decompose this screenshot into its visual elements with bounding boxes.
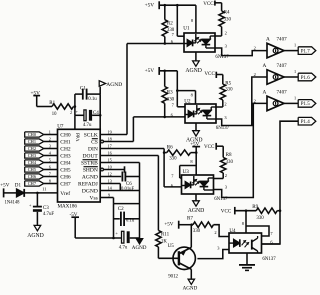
wire U3 pin8 [195, 153, 197, 175]
resistor R9 330 [235, 210, 256, 212]
svg-text:+5V: +5V [145, 2, 155, 8]
svg-text:17: 17 [108, 143, 112, 148]
wire CH7 pin 8 [44, 183, 58, 185]
wire CS net [101, 140, 104, 143]
svg-text:MAX186: MAX186 [58, 204, 78, 210]
svg-text:4.7u: 4.7u [83, 123, 92, 128]
svg-text:1: 1 [294, 43, 296, 48]
wire U2 pin7 [176, 71, 178, 107]
svg-text:330: 330 [193, 229, 201, 234]
svg-text:P1.5: P1.5 [301, 102, 310, 107]
svg-text:2: 2 [254, 46, 256, 51]
wire U4 pin3 to Q collector [197, 250, 229, 259]
svg-text:6N137: 6N137 [216, 126, 230, 131]
svg-text:330: 330 [226, 160, 234, 165]
svg-text:2: 2 [225, 31, 227, 36]
svg-text:11: 11 [42, 186, 46, 191]
wire caps to Vdd pin 20 [74, 115, 76, 129]
svg-text:CS: CS [91, 139, 98, 145]
wire -5V branch vertical [113, 204, 115, 238]
svg-text:+5V: +5V [145, 68, 155, 74]
capacitor C7 4.7u polarized [122, 231, 124, 243]
node after R1 [74, 105, 77, 108]
svg-text:7407: 7407 [277, 63, 288, 69]
port CH2 [25, 146, 44, 151]
svg-text:VCC: VCC [203, 1, 214, 7]
ground AGND (below U2) [195, 123, 197, 131]
svg-text:330: 330 [256, 216, 264, 221]
svg-text:13: 13 [108, 178, 112, 183]
svg-text:DGND: DGND [82, 188, 98, 194]
resistor R4 330 [219, 11, 224, 27]
wire U3 pin3 to buffer [214, 103, 268, 197]
wire U3 pin7 [179, 166, 181, 179]
resistor R7 330 [179, 224, 193, 226]
svg-text:7407: 7407 [277, 89, 288, 95]
svg-text:AGND: AGND [82, 174, 98, 180]
svg-text:330: 330 [224, 18, 232, 23]
port CH1 [25, 139, 44, 144]
svg-text:0.1u: 0.1u [126, 218, 135, 223]
svg-text:VCC: VCC [204, 144, 215, 150]
svg-text:+5V: +5V [164, 222, 173, 228]
port CH4 [25, 160, 44, 165]
svg-text:REFADJ: REFADJ [78, 181, 99, 187]
svg-text:CH7: CH7 [28, 181, 37, 186]
port P1.4 [298, 117, 316, 125]
wire buffer output P1.7 [284, 50, 298, 52]
wire U3 pin2 to R8 [214, 178, 224, 180]
svg-text:R1: R1 [49, 100, 55, 106]
wire SSTRB net [100, 162, 139, 164]
wire buffer output P1.6 [284, 76, 298, 78]
svg-text:Vss: Vss [90, 195, 98, 201]
svg-text:10: 10 [52, 112, 57, 117]
svg-text:SSTRB: SSTRB [81, 160, 98, 166]
wire U1 pin3 to buffer [215, 48, 267, 56]
wire R1 node vertical [74, 94, 76, 115]
svg-text:R3: R3 [167, 89, 173, 95]
buffer 7407 (P1.6 driver) [267, 70, 284, 85]
svg-text:R7: R7 [187, 215, 193, 221]
wire DIN net [100, 148, 164, 150]
capacitor C1 [75, 93, 83, 95]
svg-text:2: 2 [225, 173, 227, 178]
wire REFADJ stub [100, 183, 120, 185]
wire SHDN stub [101, 168, 104, 171]
svg-text:R2: R2 [167, 20, 173, 26]
capacitor C4 [75, 114, 84, 116]
svg-text:6N137: 6N137 [262, 257, 276, 262]
U4 emission arrows [242, 241, 246, 246]
wire U4 pin6 [262, 243, 281, 245]
svg-text:2: 2 [70, 110, 72, 115]
resistor R5 330 [220, 84, 225, 100]
svg-text:CH3: CH3 [60, 153, 71, 159]
svg-text:330: 330 [225, 87, 233, 92]
port CH3 [25, 153, 44, 158]
svg-text:2: 2 [49, 137, 51, 142]
svg-text:1N4148: 1N4148 [5, 200, 21, 205]
svg-text:2: 2 [254, 72, 256, 77]
ground AGND (below U1) [195, 52, 197, 61]
wire U4 pin7 [246, 226, 269, 236]
svg-text:4.7uF: 4.7uF [43, 212, 55, 217]
wire U1 pin7 [176, 5, 178, 36]
wire CH0 pin 1 [44, 134, 58, 136]
overline SHDN [84, 166, 98, 168]
svg-text:DIN: DIN [88, 146, 98, 152]
capacitor C3 [36, 193, 38, 207]
svg-text:7407: 7407 [277, 37, 288, 43]
svg-text:CH5: CH5 [60, 167, 71, 173]
svg-text:VCC: VCC [221, 209, 232, 215]
wire CH3 pin 4 [44, 155, 58, 157]
svg-text:R6: R6 [167, 145, 173, 151]
wire D1 to Vref pin 11 [24, 192, 57, 194]
wire SCLK net [100, 134, 127, 136]
svg-text:18: 18 [108, 136, 112, 141]
svg-text:AGND: AGND [27, 233, 44, 239]
svg-text:R4: R4 [224, 10, 230, 16]
svg-text:CH5: CH5 [28, 167, 36, 172]
svg-text:C2: C2 [118, 206, 124, 212]
ground AGND (below Q) [188, 279, 194, 284]
svg-text:R5: R5 [225, 81, 231, 87]
wire Vss net [100, 197, 113, 199]
overline SSTRB [83, 159, 98, 161]
port CH5 [25, 167, 44, 172]
svg-text:CH4: CH4 [28, 160, 37, 165]
diode D1 1N4148 [17, 189, 25, 197]
svg-text:U1: U1 [183, 26, 190, 32]
wire U2 pin3 to buffer [216, 77, 267, 126]
wire U4 pin8 [245, 209, 248, 212]
svg-text:AGND: AGND [183, 286, 198, 290]
buffer 7407 (P1.7 driver) [267, 43, 284, 58]
svg-text:Vdd: Vdd [77, 133, 82, 142]
svg-text:CH2: CH2 [60, 146, 71, 152]
svg-text:3: 3 [49, 144, 51, 149]
svg-text:4.7u: 4.7u [119, 246, 128, 251]
svg-text:5: 5 [49, 158, 51, 163]
svg-text:2: 2 [254, 98, 256, 103]
ground AGND (below C3) [34, 225, 41, 230]
port CH0 [25, 132, 44, 137]
svg-text:A: A [263, 63, 267, 69]
svg-text:7: 7 [49, 172, 51, 177]
svg-text:CH4: CH4 [60, 160, 71, 166]
svg-text:AGND: AGND [185, 68, 202, 74]
ground (below U4) [246, 253, 248, 265]
svg-text:6: 6 [49, 165, 51, 170]
resistor R8 330 [221, 157, 226, 173]
svg-text:AGND: AGND [132, 245, 147, 251]
svg-text:CH6: CH6 [60, 174, 71, 180]
port P1.5 [298, 100, 316, 108]
wire CH6 pin 7 [44, 176, 58, 178]
svg-text:VCC: VCC [204, 71, 215, 77]
resistor R3 330 [164, 71, 166, 87]
svg-text:+5V: +5V [0, 182, 9, 188]
ground AGND (top left) [99, 87, 101, 94]
wire R11 to base [158, 257, 179, 259]
wire U1 pin8 [195, 5, 197, 33]
svg-text:16: 16 [108, 150, 112, 155]
port CH6 [25, 174, 44, 179]
wire CH5 pin 6 [44, 169, 58, 171]
port CH7 [25, 181, 44, 186]
svg-text:19: 19 [108, 129, 112, 134]
svg-text:SCLK: SCLK [84, 132, 98, 138]
wire U2 pin8 [176, 89, 179, 92]
resistor R1 [37, 106, 52, 108]
wire U1 pin2 to R4 [215, 35, 222, 37]
svg-text:CH6: CH6 [28, 174, 37, 179]
U4 LED [234, 239, 240, 247]
svg-text:AGND: AGND [106, 82, 122, 88]
svg-text:9: 9 [108, 192, 110, 197]
svg-text:1: 1 [294, 95, 296, 100]
svg-text:R11: R11 [161, 231, 170, 237]
svg-text:D1: D1 [15, 182, 22, 188]
wire Q emitter to +5V [190, 225, 192, 248]
svg-text:15: 15 [108, 157, 112, 162]
svg-text:C4: C4 [93, 110, 99, 116]
wire CH1 pin 2 [44, 141, 58, 143]
svg-text:CH0: CH0 [28, 132, 36, 137]
svg-text:0.1u: 0.1u [88, 97, 97, 102]
svg-text:A: A [266, 37, 270, 43]
wire DGND net [100, 190, 139, 192]
svg-text:SHDN: SHDN [83, 167, 98, 173]
wire P1.4 net [262, 121, 299, 244]
wire U2 pin2 to R5 [216, 106, 223, 108]
svg-text:R8: R8 [226, 152, 232, 158]
wire Q collector down [190, 269, 192, 279]
svg-text:R9: R9 [252, 204, 258, 210]
svg-text:12: 12 [108, 171, 112, 176]
svg-text:DOUT: DOUT [83, 153, 99, 159]
wire AGND bus vertical [139, 163, 141, 239]
wire CH4 pin 5 [44, 162, 58, 164]
resistor R11 1K [156, 230, 161, 247]
svg-text:CH3: CH3 [28, 153, 36, 158]
svg-text:2: 2 [214, 230, 216, 235]
svg-text:1: 1 [49, 130, 51, 135]
svg-text:Vref: Vref [60, 190, 70, 197]
capacitor C6 [100, 176, 121, 178]
wire CH2 pin 3 [44, 148, 58, 150]
resistor R6 330 [163, 151, 166, 154]
svg-text:AGND: AGND [188, 208, 205, 214]
wire buffer output P1.5 [284, 102, 298, 104]
svg-text:CH2: CH2 [28, 146, 36, 151]
svg-text:P1.7: P1.7 [301, 49, 310, 54]
svg-text:C3: C3 [43, 205, 49, 211]
capacitor C2 [114, 218, 120, 220]
svg-text:10: 10 [108, 164, 112, 169]
svg-text:U3: U3 [183, 169, 190, 175]
svg-text:8: 8 [49, 179, 51, 184]
svg-text:U5: U5 [168, 243, 175, 249]
svg-text:A: A [263, 89, 267, 95]
svg-text:1: 1 [294, 69, 296, 74]
svg-text:CH1: CH1 [60, 139, 71, 145]
svg-text:330: 330 [169, 157, 177, 162]
buffer 7407 (P1.5 driver) [267, 96, 284, 111]
wire DOUT net [100, 155, 158, 157]
svg-text:P1.4: P1.4 [301, 120, 310, 125]
svg-text:P1.6: P1.6 [301, 76, 310, 81]
svg-text:9012: 9012 [168, 275, 178, 280]
svg-text:CH1: CH1 [28, 139, 36, 144]
ground AGND (below U3) [195, 194, 197, 201]
svg-text:2: 2 [224, 101, 226, 106]
svg-text:CH7: CH7 [60, 181, 71, 187]
svg-text:CH0: CH0 [60, 132, 71, 138]
resistor R2 330 [164, 5, 166, 20]
port P1.6 [298, 73, 316, 81]
port P1.7 [298, 47, 316, 55]
svg-text:1K: 1K [161, 240, 167, 245]
svg-text:C1: C1 [80, 85, 86, 91]
overline CS [92, 138, 98, 140]
ground AGND (bottom middle) [136, 239, 142, 244]
U4 phototransistor [251, 240, 253, 250]
wire R7 to U4 pin2 [214, 225, 230, 237]
